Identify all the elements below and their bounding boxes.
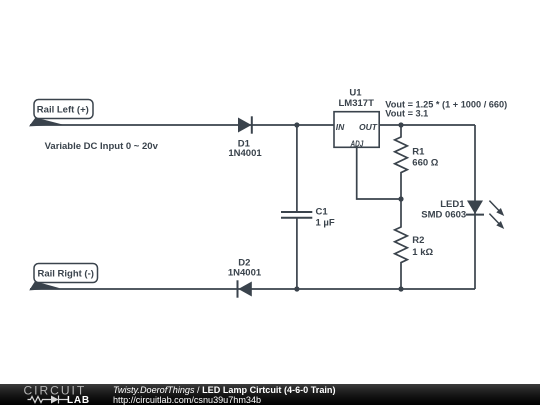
svg-text:1 kΩ: 1 kΩ xyxy=(412,247,433,258)
svg-text:SMD 0603: SMD 0603 xyxy=(421,210,466,221)
svg-text:U1: U1 xyxy=(349,88,362,99)
svg-text:Vout = 3.1: Vout = 3.1 xyxy=(385,109,428,119)
svg-text:1N4001: 1N4001 xyxy=(228,267,262,278)
svg-text:C1: C1 xyxy=(316,206,329,217)
svg-text:1 µF: 1 µF xyxy=(316,217,335,228)
svg-text:R1: R1 xyxy=(412,146,425,157)
svg-text:660 Ω: 660 Ω xyxy=(412,158,438,169)
svg-text:Rail Right (-): Rail Right (-) xyxy=(37,269,93,280)
svg-text:ADJ: ADJ xyxy=(350,138,364,148)
svg-text:OUT: OUT xyxy=(359,122,378,132)
svg-text:Rail Left (+): Rail Left (+) xyxy=(37,105,89,116)
svg-text:IN: IN xyxy=(336,122,345,132)
svg-text:Variable DC Input 0 ~ 20v: Variable DC Input 0 ~ 20v xyxy=(45,141,159,152)
svg-text:LAB: LAB xyxy=(67,395,90,405)
svg-text:LM317T: LM317T xyxy=(339,98,375,109)
svg-text:1N4001: 1N4001 xyxy=(228,148,262,159)
svg-text:R2: R2 xyxy=(412,235,424,246)
svg-text:LED1: LED1 xyxy=(440,199,465,210)
